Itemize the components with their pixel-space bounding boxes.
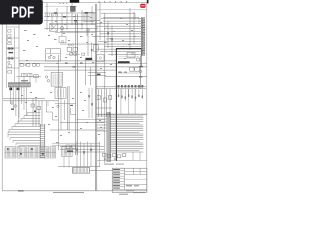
svg-text:PDF: PDF xyxy=(11,5,34,22)
